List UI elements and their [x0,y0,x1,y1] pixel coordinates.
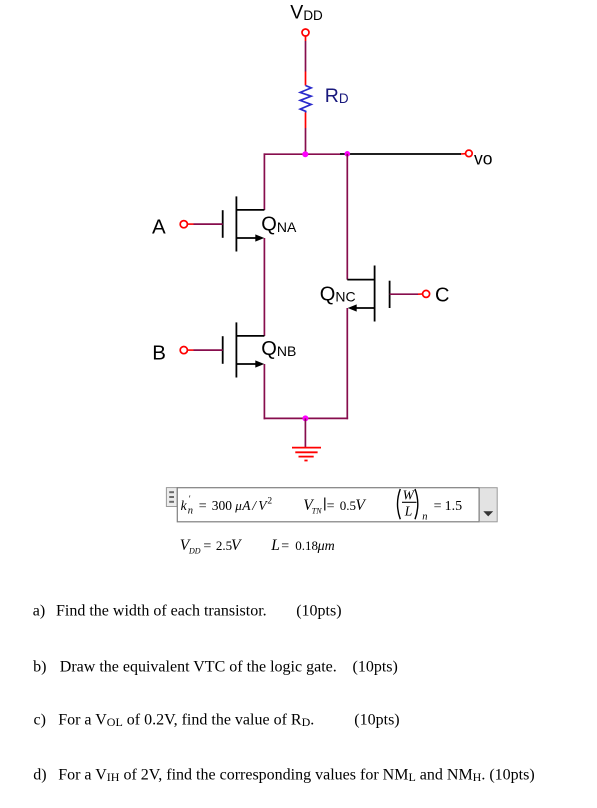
equation VTN| = 0.5V [303,497,366,515]
svg-text:Draw the equivalent VTC of the: Draw the equivalent VTC of the logic gat… [60,658,337,675]
label QNB [261,338,296,360]
label C [435,284,449,306]
svg-text:W: W [403,488,416,503]
svg-text:For a VOL of 0.2V, find the va: For a VOL of 0.2V, find the value of RD. [58,711,314,729]
svg-text:QNA: QNA [261,214,297,236]
svg-text:=: = [281,539,289,554]
label B [152,341,166,364]
svg-text:=: = [203,539,211,554]
wire VDD to resistor [305,41,307,72]
svg-text:RD: RD [325,85,349,107]
equation VDD = 2.5V [180,537,242,555]
svg-text:d): d) [33,766,46,783]
svg-text:b): b) [33,658,46,675]
equation field dropdown button [480,488,498,522]
net label vo [474,148,492,168]
svg-text:A: A [152,216,166,239]
wire QNC source to bottom rail [346,308,348,419]
svg-text:0.5: 0.5 [340,498,356,513]
equation kn' = 300 uA/V^2 [181,494,273,516]
svg-text:L: L [270,537,280,554]
equation field box [177,488,479,522]
svg-text:=: = [434,499,442,514]
junction QNC drain [345,151,351,157]
terminal VDD [302,29,309,41]
svg-text:μm: μm [317,539,335,554]
wire resistor to rail [305,128,307,154]
svg-text:For a VIH of 2V, find the corr: For a VIH of 2V, find the corresponding … [58,766,534,784]
svg-text:VDD: VDD [290,2,323,24]
transistor QNA [194,196,265,251]
label QNC [320,283,356,305]
svg-text:L: L [404,503,413,518]
wire rail to QNA drain [263,153,265,210]
svg-text:Find the width of each transis: Find the width of each transistor. [56,602,267,619]
svg-text:n: n [422,511,427,522]
svg-text:1.5: 1.5 [445,499,463,514]
question a [33,602,342,619]
svg-text:k: k [181,498,188,513]
junction drain node [302,151,308,157]
terminal vo [461,150,472,157]
transistor QNC [347,266,418,322]
svg-text:A: A [241,498,251,513]
question c [34,711,400,729]
svg-text:=: = [199,499,207,514]
svg-text:V: V [231,537,242,554]
question b [33,658,398,675]
terminal B [180,347,193,354]
svg-text:DD: DD [188,546,201,555]
svg-text:=: = [327,499,335,514]
svg-text:(10pts): (10pts) [296,602,341,619]
svg-text:300: 300 [212,498,233,513]
svg-text:2: 2 [267,497,272,507]
net label VDD [290,2,323,24]
svg-text:V: V [355,497,366,514]
wire ground stem [304,418,306,447]
svg-text:0.18: 0.18 [295,538,318,553]
svg-text:vo: vo [474,148,492,168]
svg-text:TN: TN [312,506,322,515]
transistor QNB [194,322,265,377]
wire QNB source to bottom rail [263,364,265,419]
svg-text:c): c) [34,711,46,728]
svg-text:QNB: QNB [261,338,296,360]
terminal C [418,290,430,297]
svg-text:n: n [188,505,193,516]
junction source node [302,415,308,421]
svg-text:C: C [435,284,449,306]
wire top rail (black, to vo) [340,153,461,155]
wire top rail (maroon) [264,153,340,155]
svg-text:(10pts): (10pts) [353,658,398,675]
wire rail to QNC drain [346,154,348,280]
wire bottom rail [264,417,349,419]
svg-text:B: B [152,341,166,364]
svg-text:μ: μ [234,498,242,513]
svg-text:(10pts): (10pts) [354,711,399,728]
ground [292,448,321,461]
equation field drag handle [166,488,177,507]
label A [152,216,166,239]
label QNA [261,214,297,236]
wire QNA source to QNB drain [263,238,265,336]
terminal A [180,221,193,228]
resistor RD [300,72,311,129]
label RD [325,85,349,107]
svg-text:2.5: 2.5 [216,538,232,553]
svg-text:QNC: QNC [320,283,356,305]
question d [33,766,534,784]
equation L = 0.18um [270,537,334,554]
equation (W/L)n = 1.5 [398,488,463,523]
svg-text:a): a) [33,602,45,619]
